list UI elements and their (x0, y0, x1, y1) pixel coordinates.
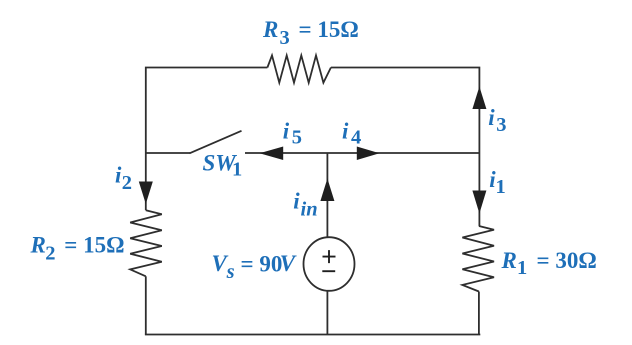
svg-text:R: R (501, 248, 517, 273)
label i_in (293, 189, 317, 221)
svg-text:V: V (280, 251, 297, 276)
current arrow i3 (up, on right wire) (472, 87, 486, 110)
label i3 (488, 105, 506, 136)
wire middle horizontal left segment (146, 152, 190, 154)
wire center vertical lower (source to bottom) (326, 291, 328, 335)
label R3 = 15 ohm (262, 17, 359, 49)
switch SW1 blade (190, 131, 242, 154)
resistor R1 (462, 226, 494, 292)
label R2 = 15 ohm (30, 233, 125, 265)
svg-text:= 90: = 90 (241, 251, 283, 276)
current arrow i5 (left, on middle wire) (260, 147, 284, 161)
voltage source minus sign (322, 270, 335, 272)
wire middle horizontal right segment (245, 152, 479, 154)
svg-text:i: i (283, 119, 290, 144)
svg-text:i: i (293, 189, 300, 214)
svg-text:3: 3 (280, 27, 290, 49)
wire left vertical upper segment (145, 153, 147, 210)
label i5 (283, 119, 302, 149)
wire bottom horizontal (145, 334, 480, 336)
wire top-right corner segment (331, 68, 480, 154)
voltage source Vs circle (304, 237, 355, 291)
svg-text:s: s (226, 261, 235, 283)
svg-text:2: 2 (122, 172, 132, 194)
svg-text:= 30Ω: = 30Ω (537, 248, 597, 273)
current arrow i4 (right, on middle wire) (357, 147, 380, 161)
resistor R2 (130, 210, 162, 276)
svg-text:i: i (342, 119, 349, 144)
svg-text:4: 4 (351, 126, 361, 148)
wire top-left corner segment (146, 68, 268, 154)
current arrow i1 (down, on right wire) (472, 191, 486, 214)
wire center vertical upper (node to source) (326, 153, 328, 237)
svg-text:5: 5 (292, 126, 302, 148)
svg-text:3: 3 (496, 114, 506, 136)
svg-text:R: R (30, 233, 46, 258)
wire left vertical lower segment (145, 276, 147, 334)
svg-text:= 15Ω: = 15Ω (64, 233, 124, 258)
label SW1 (203, 150, 243, 180)
svg-text:in: in (301, 199, 318, 221)
label R1 = 30 ohm (501, 248, 597, 279)
label i2 (115, 162, 132, 194)
svg-text:i: i (488, 105, 495, 130)
svg-text:1: 1 (496, 176, 506, 198)
voltage source plus sign (323, 250, 336, 263)
label i1 (489, 167, 506, 198)
label Vs = 90V (212, 251, 297, 283)
svg-text:1: 1 (517, 257, 527, 279)
svg-text:R: R (262, 17, 278, 42)
wire right vertical upper segment (478, 153, 480, 226)
svg-text:2: 2 (45, 242, 55, 264)
wire right vertical lower segment (478, 292, 480, 335)
svg-text:= 15Ω: = 15Ω (299, 17, 359, 42)
label i4 (342, 119, 361, 149)
current arrow i2 (down, on left wire) (139, 182, 153, 205)
current arrow i_in (up, on center wire) (320, 179, 334, 202)
resistor R3 (267, 55, 331, 82)
svg-text:1: 1 (232, 158, 242, 180)
